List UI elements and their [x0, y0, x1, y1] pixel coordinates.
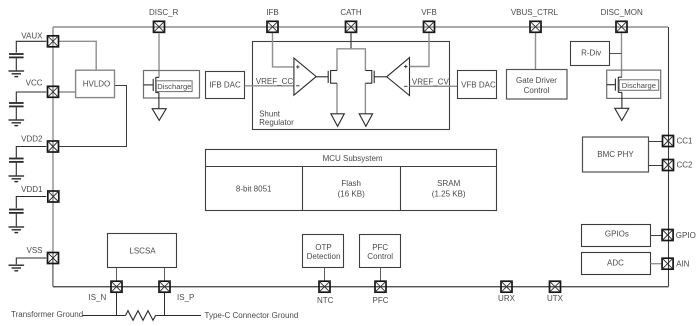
- wire R-Div to DISC_MON net: [610, 53, 622, 55]
- pin NTC: [317, 281, 334, 305]
- capacitor at VDD1: [9, 197, 46, 227]
- ground below VDD1 cap: [9, 227, 25, 233]
- pin IS_P: [159, 281, 194, 302]
- pin VCC: [26, 79, 59, 98]
- wire VCC to HVLDO: [59, 91, 76, 93]
- block Gate Driver Control: [507, 70, 568, 100]
- svg-text:IFB DAC: IFB DAC: [209, 80, 241, 89]
- svg-text:VSS: VSS: [26, 246, 42, 255]
- svg-text:Detection: Detection: [307, 252, 341, 261]
- svg-text:DISC_MON: DISC_MON: [601, 8, 643, 17]
- wire left border bus: [52, 27, 54, 258]
- transistor shunt FET left: [328, 70, 337, 84]
- op-amp CV (right): [374, 58, 409, 96]
- wire top border bus: [53, 26, 668, 28]
- svg-text:Control: Control: [367, 252, 393, 261]
- pin VDD2: [21, 135, 58, 152]
- svg-text:Type-C Connector Ground: Type-C Connector Ground: [205, 311, 299, 320]
- wire IFB to op-amp CC plus input: [273, 33, 294, 67]
- svg-text:VFB: VFB: [421, 8, 437, 17]
- wire IS_N to transformer ground net: [116, 292, 118, 315]
- block Discharge (DISC_MON) label box: [619, 80, 659, 91]
- block Discharge (DISC_R) label box: [156, 81, 192, 92]
- wire shunt FET sources to ground: [336, 83, 338, 113]
- pin URX: [498, 281, 516, 303]
- svg-text:MCU Subsystem: MCU Subsystem: [323, 154, 383, 163]
- ground below VDD2 cap: [9, 176, 25, 182]
- svg-text:CATH: CATH: [340, 8, 361, 17]
- wire HVLDO to VDD2: [59, 86, 127, 147]
- svg-text:SRAM: SRAM: [437, 179, 460, 188]
- svg-text:UTX: UTX: [547, 294, 564, 303]
- wire DISC_R to discharge FET: [158, 34, 160, 78]
- transistor discharge FET (DISC_MON): [607, 77, 622, 108]
- pin PFC: [373, 281, 389, 305]
- svg-text:Gate Driver: Gate Driver: [516, 76, 557, 85]
- svg-text:CC2: CC2: [677, 161, 694, 170]
- svg-text:Control: Control: [524, 86, 550, 95]
- svg-text:NTC: NTC: [317, 296, 334, 305]
- wire VFB to op-amp CV plus input: [410, 33, 430, 66]
- block Discharge (DISC_MON) outer box: [607, 70, 661, 98]
- svg-text:PFC: PFC: [373, 296, 389, 305]
- svg-text:DISC_R: DISC_R: [149, 8, 179, 17]
- wire VAUX to HVLDO: [59, 41, 96, 70]
- wire type-c ground lead: [156, 315, 202, 317]
- block LSCSA: [108, 234, 177, 268]
- wire IS_P to type-c ground net: [164, 292, 166, 315]
- ground below discharge FET (DISC_R): [152, 109, 166, 121]
- block PFC Control: [360, 235, 401, 268]
- svg-text:VREF_CC: VREF_CC: [256, 77, 294, 86]
- svg-text:(1.25 KB): (1.25 KB): [432, 190, 466, 199]
- svg-text:8-bit 8051: 8-bit 8051: [236, 185, 272, 194]
- pin VSS: [26, 246, 58, 264]
- svg-text:Discharge: Discharge: [622, 81, 656, 90]
- pin IS_N: [89, 281, 122, 302]
- block MCU Subsystem: [206, 150, 497, 211]
- svg-text:OTP: OTP: [315, 243, 331, 252]
- svg-text:VDD2: VDD2: [21, 135, 43, 144]
- svg-text:AIN: AIN: [676, 259, 690, 268]
- wire VREF_CV from VFB DAC to op-amp minus input: [410, 85, 458, 87]
- svg-text:HVLDO: HVLDO: [83, 80, 111, 89]
- svg-text:ADC: ADC: [607, 259, 624, 268]
- svg-text:VCC: VCC: [26, 79, 43, 88]
- ground at VSS: [16, 258, 46, 264]
- pin CC1: [663, 136, 694, 147]
- svg-text:VFB DAC: VFB DAC: [461, 81, 496, 90]
- svg-text:Regulator: Regulator: [259, 118, 294, 127]
- capacitor at VCC: [9, 92, 46, 119]
- pin VAUX: [21, 31, 58, 46]
- pin CATH: [340, 8, 361, 32]
- wire BMC PHY to CC2: [649, 165, 663, 167]
- svg-text:VREF_CV: VREF_CV: [412, 77, 450, 86]
- pin VBUS_CTRL: [511, 8, 559, 32]
- wire DISC_MON down to discharge FET: [621, 33, 623, 77]
- svg-text:GPIO: GPIO: [676, 231, 696, 240]
- wire GPIOs to GPIO pin: [650, 235, 662, 237]
- block ADC: [582, 253, 651, 275]
- pin AIN: [662, 258, 690, 269]
- svg-text:GPIOs: GPIOs: [605, 230, 629, 239]
- pin VDD1: [21, 185, 59, 202]
- svg-text:PFC: PFC: [372, 243, 388, 252]
- pin DISC_R: [149, 8, 179, 32]
- op-amp CC (left): [294, 58, 328, 95]
- block IFB DAC: [206, 72, 245, 99]
- svg-text:URX: URX: [498, 294, 516, 303]
- svg-text:IS_P: IS_P: [177, 293, 194, 302]
- wire PFC Control to PFC pin: [380, 268, 382, 282]
- svg-text:BMC PHY: BMC PHY: [597, 150, 634, 159]
- svg-text:(16 KB): (16 KB): [338, 190, 365, 199]
- pin UTX: [547, 281, 564, 303]
- wire VREF_CC from IFB DAC to op-amp minus input: [245, 85, 294, 87]
- wire shunt drain bus: [337, 49, 365, 71]
- wire LSCSA to IS_N: [116, 268, 118, 281]
- ground below shunt FET right: [359, 114, 372, 127]
- capacitor at VAUX: [9, 41, 46, 70]
- wire ADC to AIN pin: [651, 263, 663, 265]
- block HVLDO: [76, 70, 115, 97]
- svg-text:Transformer Ground: Transformer Ground: [11, 310, 83, 319]
- pin IFB: [266, 8, 278, 32]
- block BMC PHY: [583, 137, 649, 172]
- pin VFB: [421, 8, 437, 32]
- wire right border bus: [668, 27, 670, 287]
- block GPIOs: [582, 225, 651, 247]
- ground below shunt FET left: [331, 114, 344, 127]
- pin CC2: [663, 160, 694, 171]
- svg-text:IFB: IFB: [266, 8, 278, 17]
- wire BMC PHY to CC1: [649, 141, 663, 143]
- wire transformer ground lead: [83, 315, 126, 317]
- block OTP Detection: [303, 235, 344, 268]
- svg-text:Flash: Flash: [341, 179, 361, 188]
- svg-text:Discharge: Discharge: [157, 82, 191, 91]
- svg-text:R-Div: R-Div: [581, 48, 601, 57]
- svg-text:CC1: CC1: [677, 137, 694, 146]
- svg-text:VAUX: VAUX: [21, 31, 43, 40]
- pin DISC_MON: [601, 8, 643, 32]
- transistor discharge FET (DISC_R): [144, 77, 159, 108]
- block Discharge (DISC_R) outer box: [144, 71, 200, 99]
- svg-text:VBUS_CTRL: VBUS_CTRL: [511, 8, 559, 17]
- wire OTP Detection to NTC: [324, 268, 326, 282]
- block Shunt Regulator: [253, 42, 450, 130]
- ground below VAUX cap: [9, 71, 25, 77]
- block VFB DAC: [458, 71, 497, 99]
- svg-text:IS_N: IS_N: [89, 293, 107, 302]
- wire CATH down to shunt pair: [350, 33, 352, 49]
- block R-Div: [571, 42, 610, 66]
- ground below VCC cap: [9, 120, 25, 126]
- wire bottom border bus: [53, 286, 669, 288]
- wire LSCSA to IS_P: [164, 268, 166, 281]
- pin GPIO: [662, 230, 696, 241]
- transistor shunt FET right: [365, 70, 374, 84]
- svg-text:VDD1: VDD1: [21, 185, 43, 194]
- ground below discharge FET (DISC_MON): [615, 108, 629, 120]
- svg-text:LSCSA: LSCSA: [129, 247, 156, 256]
- wire VSS to bottom ground bus: [52, 258, 54, 287]
- capacitor at VDD2: [9, 147, 46, 176]
- wire VBUS_CTRL to Gate Driver Control: [535, 33, 537, 70]
- resistor between grounds: [126, 311, 156, 321]
